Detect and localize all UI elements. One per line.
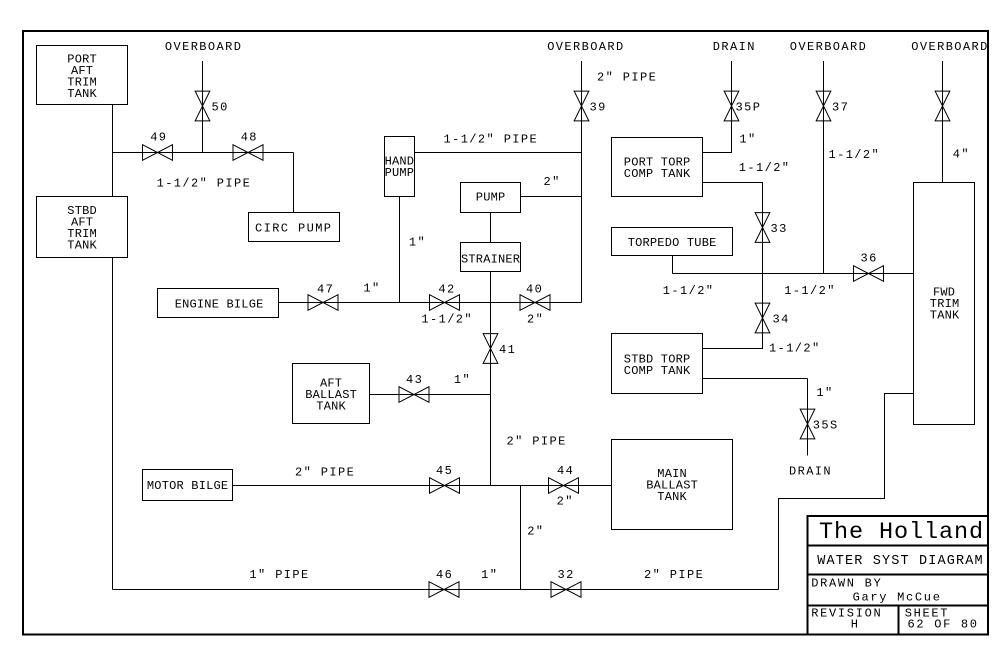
svg-text:1": 1": [409, 236, 426, 250]
svg-text:35P: 35P: [736, 101, 762, 115]
svg-text:OVERBOARD: OVERBOARD: [790, 40, 867, 54]
title block row line 2: [808, 574, 989, 576]
svg-text:1": 1": [454, 373, 471, 387]
valve 41: [483, 334, 498, 364]
svg-text:PUMP: PUMP: [476, 190, 506, 204]
svg-text:TANK: TANK: [67, 87, 97, 101]
text AFT BALLAST TANK: [305, 377, 357, 414]
svg-text:TANK: TANK: [930, 309, 960, 323]
valve 44: [549, 478, 579, 494]
wire torpedo 1-1/2in pipe to fwd trim tank: [673, 273, 914, 275]
text MOTOR BILGE: [147, 479, 228, 493]
text FWD TRIM TANK: [930, 286, 960, 323]
wire torpedo tube down: [672, 256, 674, 274]
wire port-aft-trim-tank to pipe: [112, 105, 114, 197]
svg-text:35S: 35S: [813, 419, 839, 433]
svg-text:2": 2": [544, 175, 561, 189]
valve 34: [755, 303, 770, 333]
svg-text:4": 4": [953, 148, 970, 162]
valve 49: [143, 145, 173, 161]
svg-text:H: H: [851, 618, 860, 632]
valve 47: [308, 295, 338, 311]
wire top 1-1/2in pipe: [113, 152, 294, 154]
text ENGINE BILGE: [175, 297, 264, 311]
wire stbd torp tank drain line: [703, 379, 808, 456]
svg-text:DRAIN: DRAIN: [789, 465, 832, 479]
svg-text:1-1/2" PIPE: 1-1/2" PIPE: [444, 133, 539, 147]
wire bottom 1in pipe: [113, 589, 779, 591]
title block row line 1: [808, 544, 989, 546]
wire hand pump 1-1/2in pipe: [415, 152, 582, 154]
svg-text:41: 41: [499, 343, 516, 357]
svg-text:WATER SYST DIAGRAM: WATER SYST DIAGRAM: [817, 554, 984, 569]
svg-text:1-1/2" PIPE: 1-1/2" PIPE: [157, 176, 252, 190]
wire overboard valve 37 line: [823, 61, 825, 274]
text PORT TORP COMP TANK: [624, 155, 691, 181]
text HAND PUMP: [385, 154, 415, 180]
wire engine bilge 1in pipe: [279, 302, 582, 304]
tank STBD TORP COMP TANK: [612, 334, 703, 394]
svg-text:OVERBOARD: OVERBOARD: [911, 40, 988, 54]
svg-text:47: 47: [317, 283, 334, 297]
svg-text:Gary McCue: Gary McCue: [853, 591, 942, 605]
svg-text:62 OF 80: 62 OF 80: [908, 618, 979, 632]
svg-text:CIRC PUMP: CIRC PUMP: [255, 222, 332, 236]
svg-text:TANK: TANK: [316, 400, 346, 414]
valve 32: [551, 582, 581, 598]
svg-text:48: 48: [241, 131, 258, 145]
text PUMP: [476, 190, 506, 204]
wire strainer down through valve 41: [490, 272, 492, 486]
box ENGINE BILGE: [158, 289, 279, 318]
svg-text:TANK: TANK: [67, 239, 97, 253]
svg-text:40: 40: [526, 283, 543, 297]
box HAND PUMP: [385, 137, 415, 197]
svg-text:The Holland: The Holland: [819, 519, 984, 546]
svg-text:46: 46: [436, 568, 453, 582]
valve 43: [399, 387, 429, 403]
valve 40: [520, 295, 550, 311]
valve 48: [233, 145, 263, 161]
box STRAINER: [461, 243, 521, 272]
svg-text:45: 45: [436, 464, 453, 478]
svg-text:2" PIPE: 2" PIPE: [507, 434, 567, 448]
tank PORT TORP COMP TANK: [612, 138, 703, 197]
svg-text:2" PIPE: 2" PIPE: [295, 466, 355, 480]
svg-text:2" PIPE: 2" PIPE: [597, 71, 657, 85]
valve 33: [755, 213, 770, 243]
svg-text:33: 33: [771, 222, 788, 236]
svg-text:1": 1": [363, 282, 380, 296]
svg-text:STRAINER: STRAINER: [461, 253, 520, 267]
wire valve 34 line to stbd torp tank: [703, 274, 763, 349]
box CIRC PUMP: [249, 213, 340, 242]
text STRAINER: [461, 253, 520, 267]
valve 46: [429, 582, 459, 598]
svg-text:1-1/2": 1-1/2": [663, 284, 715, 298]
svg-text:42: 42: [438, 283, 455, 297]
svg-text:1": 1": [481, 568, 498, 582]
wire elbow down to circ pump: [293, 153, 295, 213]
svg-text:50: 50: [212, 101, 229, 115]
svg-text:TANK: TANK: [657, 490, 687, 504]
wire pump to strainer: [490, 213, 492, 243]
svg-text:2" PIPE: 2" PIPE: [644, 568, 704, 582]
box MOTOR BILGE: [143, 470, 233, 501]
valve 42: [430, 295, 460, 311]
valve 50: [195, 91, 210, 121]
svg-text:1-1/2": 1-1/2": [769, 342, 821, 356]
svg-text:1": 1": [816, 386, 833, 400]
svg-text:1" PIPE: 1" PIPE: [249, 568, 309, 582]
svg-text:OVERBOARD: OVERBOARD: [547, 40, 624, 54]
tank PORT AFT TRIM TANK: [37, 46, 128, 105]
text PORT AFT TRIM TANK: [67, 52, 97, 101]
svg-text:44: 44: [557, 464, 574, 478]
valve 39: [574, 91, 589, 121]
svg-text:1": 1": [739, 133, 756, 147]
svg-text:32: 32: [558, 568, 575, 582]
wire pump 2in line: [521, 196, 582, 198]
svg-text:2": 2": [527, 525, 544, 539]
svg-text:1-1/2": 1-1/2": [829, 148, 881, 162]
svg-text:2": 2": [527, 313, 544, 327]
wire fwd trim tank to bottom pipe: [779, 394, 914, 590]
svg-text:1-1/2": 1-1/2": [421, 313, 473, 327]
svg-text:36: 36: [861, 252, 878, 266]
valve 37: [816, 91, 831, 121]
wire hand pump 1in down line: [399, 197, 401, 303]
text TORPEDO TUBE: [628, 236, 717, 250]
svg-text:TORPEDO TUBE: TORPEDO TUBE: [628, 236, 717, 250]
valve 35P: [724, 91, 739, 121]
wire stbd-aft-trim-tank down to bottom pipe: [112, 258, 114, 590]
text STBD TORP COMP TANK: [624, 352, 691, 378]
title block row line 3: [808, 604, 989, 606]
box TORPEDO TUBE: [612, 228, 733, 256]
tank STBD AFT TRIM TANK: [37, 197, 128, 258]
wire port torp tank to valve 33: [703, 183, 763, 274]
svg-text:DRAIN: DRAIN: [713, 40, 756, 54]
wire aft ballast tank 1in pipe: [370, 394, 491, 396]
text STBD AFT TRIM TANK: [67, 204, 97, 253]
svg-text:34: 34: [773, 313, 790, 327]
svg-text:1-1/2": 1-1/2": [739, 161, 791, 175]
wire overboard 4in line: [942, 61, 944, 183]
valve 36: [854, 266, 884, 282]
valve 45: [430, 478, 460, 494]
valve (4-inch overboard): [935, 91, 950, 121]
svg-text:REVISION: REVISION: [811, 606, 882, 620]
title block frame: [808, 516, 989, 635]
wire drain valve 35P line: [703, 61, 732, 153]
svg-text:DRAWN BY: DRAWN BY: [811, 577, 882, 591]
svg-text:COMP TANK: COMP TANK: [624, 364, 691, 378]
svg-text:43: 43: [406, 373, 423, 387]
svg-text:1-1/2": 1-1/2": [784, 284, 836, 298]
wire 2in down line: [520, 486, 522, 590]
wire motor bilge 2in pipe: [233, 485, 612, 487]
wire overboard valve 39 line down: [581, 61, 583, 303]
tank AFT BALLAST TANK: [293, 364, 370, 424]
tank MAIN BALLAST TANK: [612, 440, 733, 530]
valve 35S: [800, 409, 815, 439]
svg-text:37: 37: [832, 101, 849, 115]
box PUMP: [461, 183, 521, 213]
svg-text:2": 2": [557, 495, 574, 509]
svg-text:PUMP: PUMP: [385, 166, 415, 180]
text MAIN BALLAST TANK: [646, 467, 698, 504]
svg-text:OVERBOARD: OVERBOARD: [165, 40, 242, 54]
svg-text:49: 49: [150, 131, 167, 145]
tank FWD TRIM TANK: [914, 183, 975, 425]
svg-text:ENGINE BILGE: ENGINE BILGE: [175, 297, 264, 311]
svg-text:39: 39: [590, 101, 607, 115]
wire overboard valve 50 line: [202, 61, 204, 153]
svg-text:MOTOR BILGE: MOTOR BILGE: [147, 479, 228, 493]
title block divider: [898, 605, 900, 634]
svg-text:COMP TANK: COMP TANK: [624, 167, 691, 181]
